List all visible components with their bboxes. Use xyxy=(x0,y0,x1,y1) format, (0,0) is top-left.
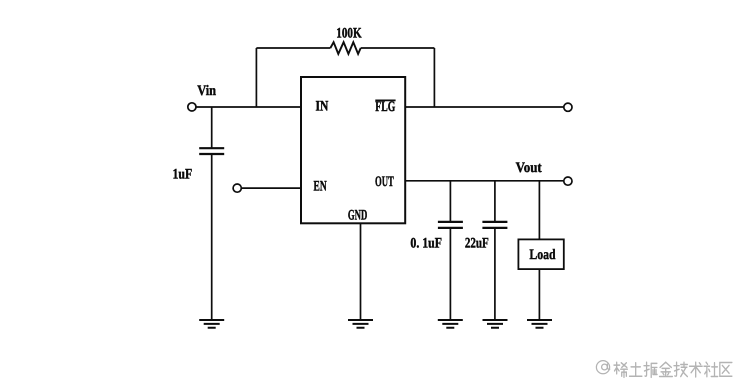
svg-text:IN: IN xyxy=(316,99,329,115)
svg-text:100K: 100K xyxy=(336,25,362,41)
svg-text:Load: Load xyxy=(529,247,555,263)
svg-text:22uF: 22uF xyxy=(465,235,489,251)
svg-text:EN: EN xyxy=(314,179,328,195)
svg-text:OUT: OUT xyxy=(375,174,394,190)
svg-text:GND: GND xyxy=(348,208,367,224)
svg-text:Vin: Vin xyxy=(197,83,216,99)
svg-text:0. 1uF: 0. 1uF xyxy=(410,235,442,251)
svg-text:Vout: Vout xyxy=(516,160,542,176)
svg-text:1uF: 1uF xyxy=(173,166,193,182)
svg-text:FLG: FLG xyxy=(375,99,395,115)
